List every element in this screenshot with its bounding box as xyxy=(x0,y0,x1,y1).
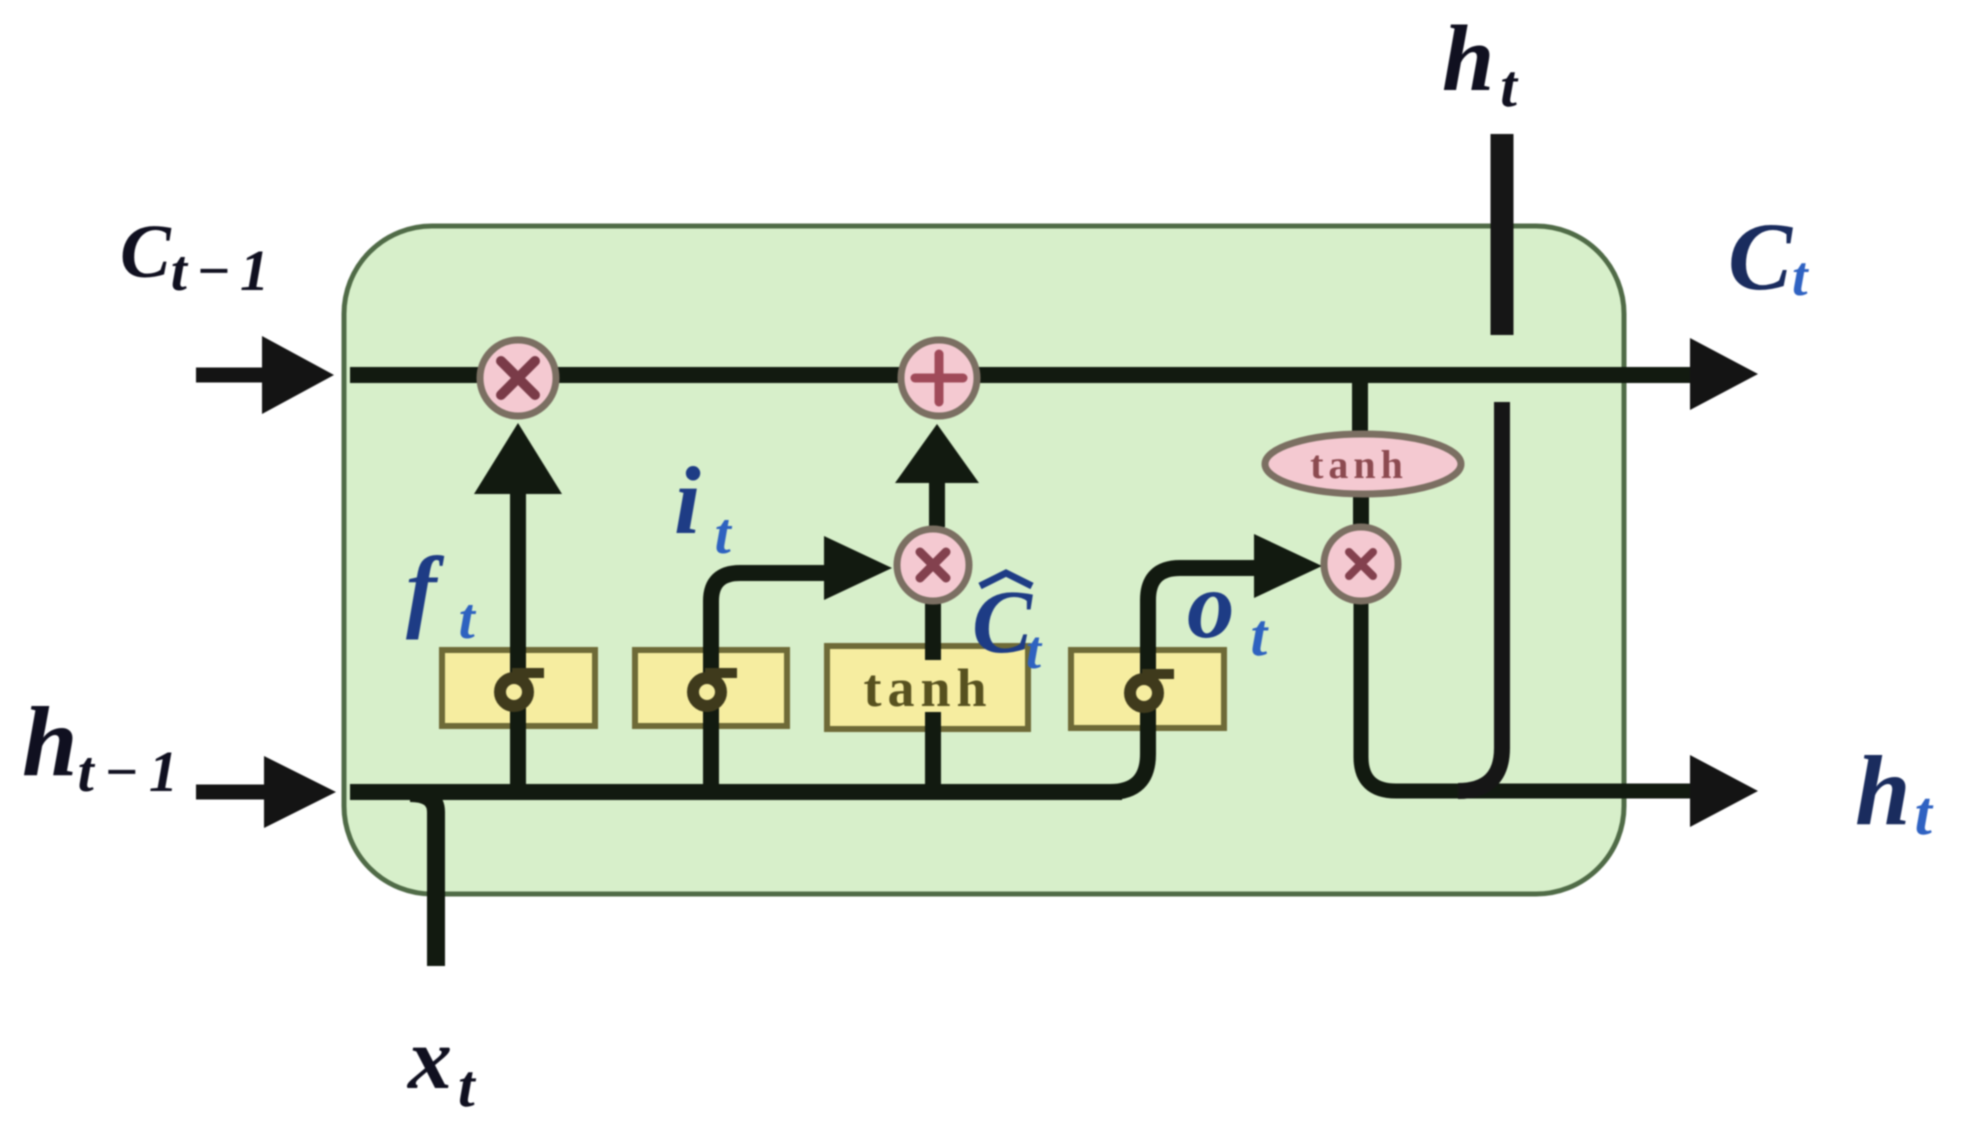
wire: ellipse to X3 xyxy=(1353,490,1369,535)
sigma gate box 1 (forget gate) xyxy=(442,650,595,726)
wire: X2 to plus shaft xyxy=(929,481,945,527)
wire: tanh branch from cell line down to ellipse xyxy=(1352,382,1368,440)
wire: X3 down and right to h_t output xyxy=(1361,590,1692,791)
svg-text:Ct−1: Ct−1 xyxy=(120,210,278,303)
wire: cell-state line C xyxy=(350,367,1692,383)
arrowhead: into plus node xyxy=(895,424,979,483)
svg-text:xt: xt xyxy=(406,1011,477,1119)
wire: candidate vertical through tanh box xyxy=(925,601,941,792)
multiply node X2 xyxy=(897,529,969,601)
hat accent of C-hat xyxy=(980,573,1032,586)
sigma glyph of box 2 xyxy=(693,673,737,706)
wire: h_t top vertical upper segment xyxy=(1491,134,1514,335)
svg-text:ht: ht xyxy=(1442,7,1519,119)
wire: h_t top vertical lower segment with fillet into output line xyxy=(1458,402,1502,791)
LSTM cell body xyxy=(344,226,1624,894)
multiply node X3 xyxy=(1324,527,1398,601)
wire: input arrow shaft C_{t-1} xyxy=(196,368,268,383)
add node on cell line xyxy=(901,340,977,416)
wire: output-gate vertical through sigma box 4, curving to X3 xyxy=(1148,568,1256,728)
wire: input-gate vertical through sigma box 2 xyxy=(711,573,828,792)
svg-text:ht−1: ht−1 xyxy=(22,686,188,804)
arrowhead: o_t into X3 xyxy=(1254,534,1322,598)
arrowhead: C_{t-1} input xyxy=(262,336,334,414)
wire: forget-gate vertical through sigma box 1 xyxy=(510,486,526,792)
wire: bottom hidden-state line h xyxy=(350,784,1122,800)
svg-text:tanh: tanh xyxy=(1310,442,1408,487)
tanh gate box 3 (candidate) xyxy=(827,646,1028,729)
sigma gate box 4 (output gate) xyxy=(1071,650,1224,728)
arrowhead: i_t into X2 xyxy=(824,536,892,600)
wire: x_t input rising into h line xyxy=(410,793,436,966)
tanh text of box 3 xyxy=(852,660,1004,712)
svg-text:ht: ht xyxy=(1855,735,1934,848)
arrowhead: forget gate into X1 xyxy=(474,423,562,494)
sigma glyph of box 1 xyxy=(500,673,544,706)
sigma glyph of box 4 xyxy=(1130,674,1174,707)
tanh ellipse node xyxy=(1265,434,1461,494)
sigma gate box 2 (input gate) xyxy=(635,650,787,726)
svg-text:Ct: Ct xyxy=(1728,203,1809,310)
arrowhead: h_t output right xyxy=(1690,755,1758,827)
multiply node X1 on cell line xyxy=(480,340,556,416)
wire: h line turning up into sigma box 4 xyxy=(1110,700,1148,792)
arrowhead: h_{t-1} input xyxy=(264,756,336,828)
arrowhead: C_t output xyxy=(1690,338,1758,410)
wire: input arrow shaft h_{t-1} xyxy=(196,785,268,800)
